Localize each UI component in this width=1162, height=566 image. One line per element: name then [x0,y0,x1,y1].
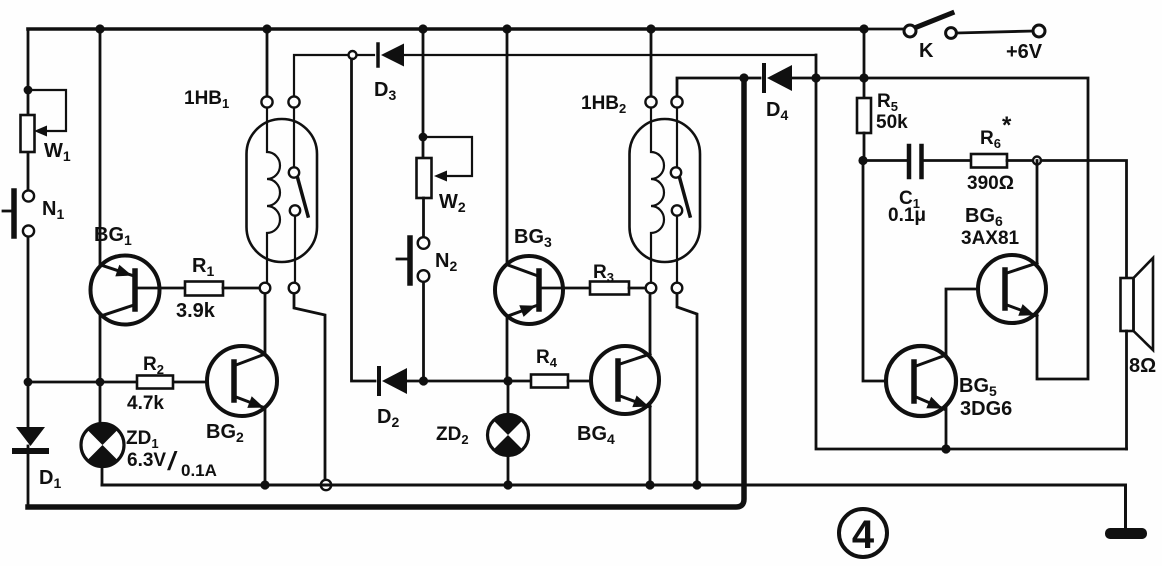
svg-text:4.7k: 4.7k [127,393,164,414]
resistor R2 body [137,376,173,389]
resistor R5 body [857,98,871,133]
wire BG5 base riser [863,164,886,381]
transistor BG1 emitter diagonal top [101,265,134,276]
relay 1HB2 terminal bottom-right [672,283,683,294]
wire: thick bottom return bus [28,78,744,507]
wire output line to speaker [1041,161,1127,279]
svg-text:3AX81: 3AX81 [961,228,1020,249]
wire R4 to BG4 base [568,380,616,383]
relay 1HB1 terminal top-left [261,96,272,107]
node: junction top bus relay1 coil [262,24,271,33]
wire R1 to relay1 terminal [223,287,260,290]
transistor BG3 collector diagonal top [508,265,538,276]
transistor BG3 body [495,256,563,324]
wire: W1 wiper loop [28,90,66,131]
relay 1HB1 contact lead top [293,108,295,167]
wire D4 line to right corner [792,78,1088,379]
relay 1HB1 armature [298,178,309,217]
transistor BG3 emitter arrow [519,305,536,317]
ground symbol [1105,528,1147,539]
lamp ZD2 bottom wedge [494,435,522,455]
relay 1HB1 case [247,119,318,262]
diode D2 triangle [382,368,407,394]
transistor BG3 collector riser [506,29,509,265]
svg-text:3.9k: 3.9k [176,300,216,322]
wire: left rail upper [27,29,30,190]
circled figure number 4 [839,509,887,557]
transistor BG6 collector arrow [1018,304,1035,316]
node W2 tap [419,133,428,142]
wire relay1 contact riser to D3 line [294,55,348,96]
switch K pole [904,25,916,37]
transistor BG1 base lead to R1 [137,287,185,290]
transistor BG6 collector diagonal bottom [1007,305,1037,316]
transistor BG1 base bar [132,271,138,309]
relay 1HB1 coil [267,108,280,283]
node: BG1 emitter R2 junction [96,378,105,387]
transistor BG5 collector diagonal [916,355,946,366]
transistor BG2 emitter diagonal [236,397,265,408]
pushbutton N1 contact top [23,190,34,201]
wire: base line through R2 [28,381,232,384]
node: left rail R2 junction [24,378,33,387]
resistor R4 body [531,375,568,388]
switch K lever [917,13,952,27]
transistor BG5 body [886,346,956,416]
resistor R1 body [185,282,223,296]
wire: y55 line corner down to D4 line and amp bottom [816,55,1127,449]
transistor BG6 base bar [1002,270,1008,308]
wire R6 right lead [1007,159,1032,162]
node: junction top bus BG3 riser [502,24,511,33]
transistor BG4 collector diagonal [620,354,650,364]
speaker cone [1134,258,1154,350]
node R6 output junction [1033,157,1041,165]
relay 1HB2 contact lead top [676,108,678,167]
transistor BG4 emitter diagonal [620,396,650,407]
pushbutton N1 actuator bar [11,191,17,236]
node ZD2 at ground bus [503,480,512,489]
transistor BG1 emitter drop [99,315,102,424]
svg-text:8Ω: 8Ω [1129,355,1156,377]
transistor BG5 collector riser to BG6 base [946,289,978,356]
pushbutton N2 actuator stem [397,258,407,261]
node: D3 line tap circle [349,51,357,59]
transistor BG3 emitter diagonal bottom [508,305,538,316]
transistor BG5 emitter diagonal [916,397,944,409]
wire: W2 riser from top bus [422,29,425,158]
transistor BG3 emitter drop [506,315,509,378]
+6V terminal [1033,25,1045,37]
node: junction top bus relay2 coil [646,24,655,33]
transistor BG1 collector diagonal bottom [101,305,134,316]
relay 1HB2 case [630,119,701,262]
pushbutton N2 actuator bar [407,238,413,283]
transistor BG2 emitter drop [264,407,267,485]
node: junction W1 tap [24,86,33,95]
svg-text:0.1μ: 0.1μ [888,205,926,226]
relay 1HB2 terminal bottom-left [646,283,657,294]
wire C1 left lead [863,159,906,162]
transistor BG3 base bar [536,271,542,309]
pushbutton N2 contact top [418,237,430,249]
potentiometer W2 body [417,158,432,198]
diode D4 triangle [767,65,792,91]
transistor BG6 emitter diagonal top [1007,263,1037,273]
transistor BG2 emitter arrow [247,396,264,408]
relay 1HB1 terminal bottom-left [260,283,271,294]
transistor BG3 base lead to R3 [541,287,590,290]
node: junction top bus switch K [859,24,868,33]
transistor BG5 emitter arrow [926,397,943,409]
node N2 at D2 line [419,376,428,385]
wire D3 line right segment [404,54,816,56]
node BG5 emitter at amp bottom [941,444,950,453]
node D4 line thick-rail junction [739,73,748,82]
wire D3 line left segment [357,54,374,56]
relay 1HB2 contact lead bottom [676,216,678,283]
transistor BG6 emitter riser [1036,161,1039,265]
relay 1HB1 coil riser [266,29,269,96]
transistor BG6 body [978,255,1046,323]
wire D2 to R4 and BG4 base [407,380,531,383]
resistor R3 body [590,282,629,295]
transistor BG2 collector diagonal [236,354,265,365]
relay 1HB1 contact point upper [289,167,299,177]
switch K wire to +6V [957,31,1033,33]
wire W2 to N2 [422,198,425,237]
lamp ZD1 bottom wedge [87,445,117,466]
node: junction top bus W2 riser [418,24,427,33]
relay 1HB2 terminal top-left [645,96,656,107]
wire R3 to relay2 terminal [629,287,646,290]
wire: top +6V bus [28,27,864,31]
diode D1 cathode bar [15,448,46,454]
svg-text:3DG6: 3DG6 [960,398,1012,420]
relay 1HB2 contact point lower [672,205,682,215]
transistor BG6 collector drop [1036,315,1039,379]
node BG2 emitter at ground bus [260,480,269,489]
relay 1HB2 armature [680,178,691,217]
wire ZD2 to ground bus [507,455,510,485]
diode D3 cathode bar [376,44,380,66]
svg-text:6.3V: 6.3V [127,450,166,471]
transistor BG4 emitter arrow [632,396,649,408]
transistor BG2 body [207,346,277,416]
switch K lead [864,28,903,31]
potentiometer W1 body [21,115,35,152]
svg-text:*: * [1002,112,1012,139]
wire relay2 contact riser to D4 line [677,78,760,96]
switch K throw [946,28,957,39]
capacitor C1 plate right [919,146,924,177]
wire W2 wiper loop [423,137,472,176]
wire speaker bottom to amp rail [1125,331,1128,449]
node BG3 emitter junction [503,376,512,385]
speaker 8ohm body [1121,278,1134,331]
lamp ZD2 feed [507,381,510,415]
transistor BG2 base bar [231,362,237,400]
node relay2 contact at ground bus [692,480,701,489]
transistor BG1 emitter arrow [115,265,132,277]
lamp ZD1 top wedge [87,424,117,445]
transistor BG4 emitter drop [649,406,652,485]
resistor R5 feed [863,31,866,98]
wire R5 to C1 junction [863,133,866,160]
diode D1 triangle [16,427,45,446]
relay 1HB2 contact point upper [671,167,681,177]
node D4 R5 junction [859,73,868,82]
lamp ZD1 body [81,424,124,467]
transistor BG1 body [91,256,160,325]
svg-text:390Ω: 390Ω [967,173,1014,194]
transistor BG4 body [591,346,659,414]
transistor BG5 emitter drop [945,407,948,449]
wire: W1 wiper arrowhead [34,126,47,137]
wire: left rail mid [27,237,30,427]
wire ZD1 to ground bus [101,466,104,485]
pushbutton N1 actuator stem [3,210,11,213]
wire relay2 contact to ground bus [677,294,697,480]
node BG4 emitter at ground bus [645,480,654,489]
wire: left rail lower to bottom bus [27,446,30,507]
pushbutton N1 contact bottom [23,225,34,236]
svg-text:4: 4 [852,513,875,557]
diode D2 cathode bar [377,368,381,394]
relay 1HB2 terminal top-right [671,96,682,107]
wire W2 wiper arrowhead [434,171,447,182]
wire: ground bus [102,485,1126,530]
relay1 contact ground terminal [321,480,331,490]
relay 1HB1 contact point lower [290,205,300,215]
relay 1HB1 terminal bottom-right [289,283,300,294]
transistor BG2 collector riser [264,293,267,355]
svg-text:0.1A: 0.1A [181,461,217,480]
capacitor C1 plate left [907,146,912,177]
diode D3 triangle [381,44,404,67]
relay 1HB1 terminal top-right [288,96,299,107]
wire C1 to R6 [924,159,971,162]
transistor BG5 base bar [911,362,917,401]
relay 1HB2 coil riser [650,29,653,96]
node R5 C1 junction [858,156,867,165]
node D4 amp-rail junction [811,73,820,82]
svg-text:+6V: +6V [1006,41,1043,63]
svg-text:50k: 50k [876,112,908,133]
transistor BG4 base bar [615,361,621,399]
svg-text:K: K [919,40,934,62]
wire N2 to D2 line [422,282,425,378]
lamp ZD2 top wedge [494,415,522,435]
diode D4 cathode bar [762,65,766,91]
lamp ZD2 body [488,415,529,456]
node: junction top bus BG1 riser [95,24,104,33]
relay 1HB1 contact lead bottom [294,216,296,283]
wire: vertical from D3 tap down to D2 [352,59,376,381]
relay 1HB2 coil [651,108,664,283]
transistor BG1 collector riser [99,29,102,265]
wire relay1 contact to ground bus [294,294,325,480]
pushbutton N2 contact bottom [418,270,430,282]
resistor R6 body [971,154,1007,168]
transistor BG4 collector riser [649,293,652,355]
